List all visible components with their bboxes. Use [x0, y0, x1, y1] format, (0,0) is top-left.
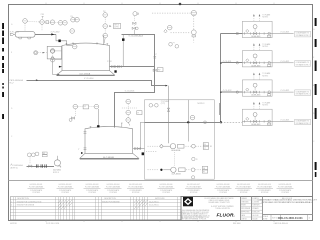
wire	[241, 209, 263, 211]
svg-text:M.MILLER: M.MILLER	[252, 212, 260, 214]
wire branch 2	[221, 62, 243, 64]
signal wire	[127, 104, 129, 110]
wire	[45, 3, 47, 4]
wire	[57, 188, 74, 190]
signal wire	[186, 169, 191, 171]
meter run block	[242, 101, 310, 126]
svg-text:FLOW DIAGRAM: FLOW DIAGRAM	[257, 186, 272, 189]
wire	[60, 197, 62, 220]
valve circle	[192, 144, 196, 148]
symbol	[134, 203, 148, 206]
tank B wall fittings	[84, 132, 87, 150]
svg-text:NONE: NONE	[263, 219, 267, 221]
svg-text:04/22/98: 04/22/98	[10, 223, 17, 225]
svg-text:T.BROWN: T.BROWN	[252, 205, 259, 207]
instrument circle	[69, 118, 72, 121]
symbol	[66, 43, 68, 45]
svg-text:N3: N3	[210, 146, 212, 148]
svg-text:4"-PL-4802: 4"-PL-4802	[51, 32, 60, 34]
group	[215, 184, 232, 194]
svg-text:04-T-4800A: 04-T-4800A	[79, 72, 90, 75]
instrument bubble	[40, 20, 45, 25]
svg-text:FT: FT	[203, 172, 205, 174]
signal wire	[148, 145, 159, 147]
instrument bubble	[50, 20, 55, 25]
signal wire	[195, 169, 202, 171]
svg-text:SYSTEM: SYSTEM	[132, 192, 140, 194]
instrument circle	[204, 121, 207, 124]
local gauge double circle left of box	[34, 51, 38, 55]
instrument circle	[236, 62, 238, 64]
group	[235, 184, 252, 194]
symbol	[19, 37, 31, 39]
wire skid drop	[168, 86, 170, 100]
group	[57, 184, 74, 194]
box	[178, 144, 184, 148]
meter run blocks	[242, 13, 310, 125]
box	[315, 18, 317, 26]
instrument bubbles above pump	[27, 153, 31, 157]
wire	[55, 59, 62, 61]
svg-text:DESCRIPTION: DESCRIPTION	[17, 198, 29, 200]
valve (black) at skid edge	[142, 152, 145, 155]
valve	[167, 108, 169, 111]
instrument bubble pair top right	[71, 17, 76, 22]
level bubbles left of tank A	[50, 49, 55, 54]
valve (black)	[97, 125, 99, 127]
wire	[241, 202, 263, 204]
wire	[256, 188, 273, 190]
signal dashes left run	[171, 32, 191, 34]
valve on tank A outlet	[115, 65, 118, 67]
signal wire	[104, 28, 106, 33]
svg-text:FLOW DIAGRAM: FLOW DIAGRAM	[216, 186, 231, 189]
column lines right half	[96, 197, 178, 220]
signal dashes into bubble	[152, 12, 191, 14]
svg-text:6"-CD-4806: 6"-CD-4806	[125, 91, 134, 93]
box	[114, 23, 121, 28]
svg-text:SYSTEM: SYSTEM	[32, 192, 40, 194]
line tag vertical bar	[219, 103, 220, 115]
svg-text:FT: FT	[204, 148, 206, 150]
svg-text:SYSTEM: SYSTEM	[61, 192, 69, 194]
meter bubble	[253, 25, 257, 29]
wire from box down then right with arrow	[53, 59, 59, 75]
svg-text:0: 0	[11, 205, 12, 207]
arrow into box	[43, 52, 45, 53]
signal wire	[89, 106, 95, 108]
symbol	[96, 43, 98, 45]
stacked tag boxes	[202, 166, 207, 169]
box	[42, 155, 47, 157]
signal wire	[174, 150, 176, 167]
pump row 2 in skid	[148, 166, 208, 179]
wire	[10, 199, 181, 201]
svg-text:(NOTE 4): (NOTE 4)	[10, 167, 18, 169]
flow arrow	[253, 14, 255, 16]
group	[277, 184, 294, 194]
signal wire	[133, 25, 135, 27]
instrument circle	[136, 27, 139, 30]
box	[181, 197, 313, 221]
wire	[55, 50, 62, 52]
instrument circle	[31, 153, 35, 157]
meter block frame	[242, 21, 272, 37]
instrument column right of tank B risers	[126, 99, 131, 104]
svg-text:04-20-98 J.D.: 04-20-98 J.D.	[149, 201, 160, 203]
box	[83, 105, 89, 109]
instrument circle	[236, 91, 238, 93]
instrument bubble	[50, 57, 55, 62]
svg-text:REF 4800: REF 4800	[233, 223, 241, 225]
svg-text:SYSTEM: SYSTEM	[261, 192, 269, 194]
box	[179, 168, 185, 172]
signal wire	[193, 16, 195, 30]
symbol	[134, 206, 140, 209]
wire	[74, 197, 76, 220]
signal riser to drum	[24, 23, 26, 31]
symbol	[184, 198, 192, 205]
svg-text:6"-CD-4805-A1A: 6"-CD-4805-A1A	[129, 35, 144, 38]
svg-text:ISSUED FOR DESIGN: ISSUED FOR DESIGN	[17, 205, 35, 207]
svg-text:NOTE 3: NOTE 3	[198, 103, 205, 105]
svg-text:HC-2": HC-2"	[9, 83, 14, 85]
svg-text:PIPING AND INSTRUMENTATION DIA: PIPING AND INSTRUMENTATION DIAGRAM AREA …	[262, 201, 314, 204]
riser with black valve on tank B roof	[97, 109, 99, 127]
wire	[176, 197, 178, 220]
row lines	[10, 200, 181, 216]
svg-text:(TYP): (TYP)	[161, 103, 166, 105]
roof nozzles tank B	[90, 123, 123, 128]
svg-text:FLOW DIAGRAM: FLOW DIAGRAM	[186, 186, 201, 189]
box	[192, 35, 196, 37]
group	[241, 197, 260, 220]
control valve cluster	[133, 22, 136, 24]
wire	[68, 197, 70, 220]
bubble on header	[190, 115, 195, 120]
svg-text:FY: FY	[173, 42, 175, 44]
signal wire	[78, 106, 84, 108]
node trunk-skid junction	[220, 121, 222, 123]
svg-text:FLOW DIAGRAM: FLOW DIAGRAM	[29, 186, 44, 189]
wire	[163, 169, 170, 171]
wire	[57, 75, 115, 77]
wire	[65, 197, 67, 220]
title block	[181, 197, 318, 221]
group	[10, 152, 61, 174]
box	[157, 68, 163, 72]
valve on suction	[29, 165, 32, 167]
instrument bubble	[94, 104, 99, 109]
wire	[138, 197, 140, 220]
svg-text:50 PSI: 50 PSI	[114, 27, 119, 29]
symbol	[58, 203, 72, 206]
symbol	[57, 166, 60, 168]
wire	[10, 215, 181, 217]
bubble below row	[192, 176, 195, 179]
box	[202, 170, 207, 173]
svg-text:NOTE 5: NOTE 5	[262, 17, 268, 19]
wire	[144, 197, 146, 220]
left margin fold marks	[2, 23, 4, 119]
junction node	[160, 169, 162, 171]
svg-text:FLOW DIAGRAM: FLOW DIAGRAM	[236, 186, 251, 189]
svg-text:FLUOR.: FLUOR.	[217, 212, 235, 218]
instrument circle	[51, 57, 54, 60]
svg-text:664448: 664448	[252, 218, 257, 220]
group	[84, 184, 101, 194]
wire	[241, 216, 263, 218]
pump P-4801A	[170, 144, 175, 149]
svg-text:FLOW DIAGRAM: FLOW DIAGRAM	[159, 186, 174, 189]
symbol	[134, 200, 148, 203]
symbol	[57, 71, 115, 75]
signal wire	[193, 37, 195, 43]
group	[185, 184, 202, 194]
roof nozzles tank A	[66, 36, 109, 45]
group	[241, 200, 263, 217]
wire	[128, 122, 130, 125]
valve	[132, 27, 135, 29]
wire skid to block 4 dashed	[214, 122, 221, 124]
wire	[63, 197, 65, 220]
valve circle	[191, 168, 195, 172]
pump row 1 in skid	[148, 143, 213, 153]
wire	[185, 188, 202, 190]
symbol	[90, 127, 92, 129]
wire branch 3	[221, 91, 243, 93]
wire	[241, 199, 263, 201]
group	[112, 65, 122, 68]
node branch 2	[220, 62, 222, 64]
signal wire	[134, 16, 136, 22]
wire discharge header across skid	[145, 122, 215, 124]
svg-text:ISSUED FOR CONSTRUCTION: ISSUED FOR CONSTRUCTION	[17, 201, 42, 203]
valve (black) on drain	[58, 40, 60, 43]
outlet bubble	[268, 32, 271, 35]
small valve under gauge	[71, 117, 74, 119]
pump P-4801B	[171, 167, 176, 172]
wire	[192, 12, 196, 14]
disclaimer paragraph	[182, 209, 211, 221]
drum D-4800	[15, 32, 35, 38]
box	[42, 152, 47, 154]
signal dashes row	[27, 21, 58, 24]
svg-text:SYSTEM: SYSTEM	[281, 192, 289, 194]
wire	[262, 197, 264, 221]
svg-text:04-P-4801A: 04-P-4801A	[171, 149, 181, 152]
instrument circle	[35, 52, 37, 54]
wire	[15, 197, 17, 220]
svg-text:04-T-4800B: 04-T-4800B	[103, 157, 114, 159]
wire	[28, 188, 45, 190]
reference drawings header band	[28, 184, 294, 194]
valve on drop with tag box	[153, 69, 156, 71]
wire tank A outlet	[110, 66, 155, 68]
svg-text:PLOT-FULL SIZE: PLOT-FULL SIZE	[46, 223, 60, 225]
bubble between pump rows	[192, 157, 195, 160]
junction dot	[187, 121, 189, 123]
signal wire	[196, 145, 203, 147]
wire	[57, 197, 59, 220]
meter run block	[242, 72, 310, 97]
wire	[163, 145, 170, 147]
flow arrow	[259, 14, 261, 16]
wire	[12, 197, 14, 220]
instrument column above tank A	[103, 13, 108, 18]
wire block exit	[272, 33, 294, 35]
svg-text:4"-CD-4812: 4"-CD-4812	[223, 90, 232, 92]
wire suction header inside skid	[168, 100, 170, 144]
wire	[270, 215, 272, 221]
bubbles pair inside skid top-left	[149, 104, 153, 108]
symbol	[107, 44, 109, 46]
gauge box with link line	[122, 107, 137, 109]
svg-text:01-15-98 J.D.: 01-15-98 J.D.	[149, 205, 160, 207]
zone tick marks bottom border	[46, 221, 274, 223]
signal wire	[29, 157, 31, 165]
column lines left half	[13, 197, 75, 220]
group	[134, 147, 135, 150]
small bubbles pair	[169, 43, 173, 47]
svg-text:FLOW DIAGRAM: FLOW DIAGRAM	[128, 186, 143, 189]
svg-text:SYSTEM: SYSTEM	[162, 192, 170, 194]
wire block internal run	[242, 33, 272, 35]
svg-text:SYSTEM: SYSTEM	[109, 192, 117, 194]
pump	[54, 160, 60, 166]
wire tank A outlet drop	[115, 34, 155, 127]
wire	[307, 215, 309, 221]
wire	[105, 188, 122, 190]
svg-text:SET @: SET @	[114, 25, 119, 27]
group	[28, 184, 45, 194]
signal bubble top center	[191, 10, 196, 15]
symbol	[121, 123, 123, 127]
fluor daniel logo	[183, 197, 193, 206]
svg-text:04-P-4802: 04-P-4802	[53, 170, 61, 172]
valve (black)	[81, 152, 83, 154]
instrument row above tank B	[73, 104, 78, 109]
wire	[241, 213, 263, 215]
diamond strainer	[160, 144, 164, 148]
wire	[10, 208, 181, 210]
wire	[80, 158, 139, 160]
instrument bubble	[63, 21, 68, 26]
svg-text:DESCRIPTION: DESCRIPTION	[104, 198, 116, 200]
svg-text:SYSTEM: SYSTEM	[219, 192, 227, 194]
svg-text:FLOW DIAGRAM: FLOW DIAGRAM	[278, 186, 293, 189]
wire drum outlet	[35, 34, 56, 36]
instrument circle above roof nozzle	[72, 44, 77, 49]
group	[154, 57, 157, 59]
group	[242, 13, 310, 38]
riser from outlet up to control line	[122, 34, 124, 66]
small box instrument	[46, 21, 49, 24]
symbol	[103, 36, 105, 45]
wire	[71, 197, 73, 220]
wire	[10, 205, 181, 207]
flow arrow into skid drop	[165, 85, 167, 87]
signal wire	[74, 109, 76, 116]
instrument bubble	[126, 118, 131, 123]
instrument circle with ring	[133, 12, 137, 16]
svg-text:FE: FE	[204, 144, 206, 146]
signal wire	[153, 104, 155, 106]
flow arrow	[186, 200, 190, 204]
wire	[235, 188, 252, 190]
instrument bubble	[103, 33, 108, 38]
box	[10, 197, 181, 220]
svg-text:FLOW DIAGRAM: FLOW DIAGRAM	[106, 186, 121, 189]
wire	[187, 100, 189, 123]
revision table	[10, 197, 181, 220]
symbol	[80, 153, 139, 158]
svg-text:ISSUED FOR REVIEW: ISSUED FOR REVIEW	[102, 201, 120, 203]
svg-text:2"-DR: 2"-DR	[107, 61, 112, 63]
address lines	[205, 197, 235, 210]
instrument bubble	[103, 24, 108, 29]
valve	[137, 147, 140, 149]
instrument bubble	[167, 25, 172, 30]
symbol	[72, 43, 74, 45]
instrument circle	[236, 32, 238, 34]
off-page connector flag inlet left	[10, 33, 13, 35]
pump circle in box	[51, 49, 55, 53]
wire	[104, 38, 105, 44]
svg-text:04-ME-4801: 04-ME-4801	[251, 36, 260, 38]
svg-text:4"-CD-4811: 4"-CD-4811	[223, 61, 232, 63]
wire	[158, 188, 175, 190]
svg-text:HEREON IS THE PROPERTY OF FLUO: HEREON IS THE PROPERTY OF FLUOR	[182, 212, 209, 214]
signal wire	[41, 25, 43, 32]
wire	[254, 29, 256, 32]
svg-text:04-P-4801B: 04-P-4801B	[172, 174, 182, 176]
wire	[127, 188, 144, 190]
title bottom strip	[263, 214, 313, 216]
signal wire	[221, 121, 242, 123]
svg-text:HS: HS	[43, 153, 45, 155]
svg-text:NOTE 6: NOTE 6	[53, 172, 59, 174]
arrows above block	[253, 16, 255, 21]
node branch 3	[220, 91, 222, 93]
wire	[136, 197, 138, 220]
svg-text:SYSTEM: SYSTEM	[190, 192, 198, 194]
svg-text:DRG-CS-4800-04-001: DRG-CS-4800-04-001	[278, 217, 303, 220]
wire down from drum outlet	[56, 34, 72, 45]
svg-text:SYSTEM: SYSTEM	[240, 192, 248, 194]
wire	[133, 30, 135, 35]
wire drum inlet	[14, 33, 16, 35]
wire drop from skid line to outlet	[140, 122, 144, 148]
wire	[45, 221, 47, 223]
inlet arrow flag tank A	[59, 66, 62, 68]
instrument circle	[175, 45, 179, 49]
wire pump suction	[27, 166, 55, 168]
flow arrow	[36, 79, 39, 81]
signal wire	[52, 53, 54, 57]
instrument bubble	[58, 21, 63, 26]
box	[137, 111, 142, 115]
wire	[10, 202, 181, 204]
destination label box	[295, 31, 311, 37]
project title	[258, 198, 318, 204]
wire	[277, 188, 294, 190]
box	[2, 23, 4, 29]
signal bubble lower	[191, 30, 196, 35]
band separator line	[9, 180, 313, 182]
flow arrow	[57, 74, 60, 76]
instrument bubble	[126, 110, 131, 115]
